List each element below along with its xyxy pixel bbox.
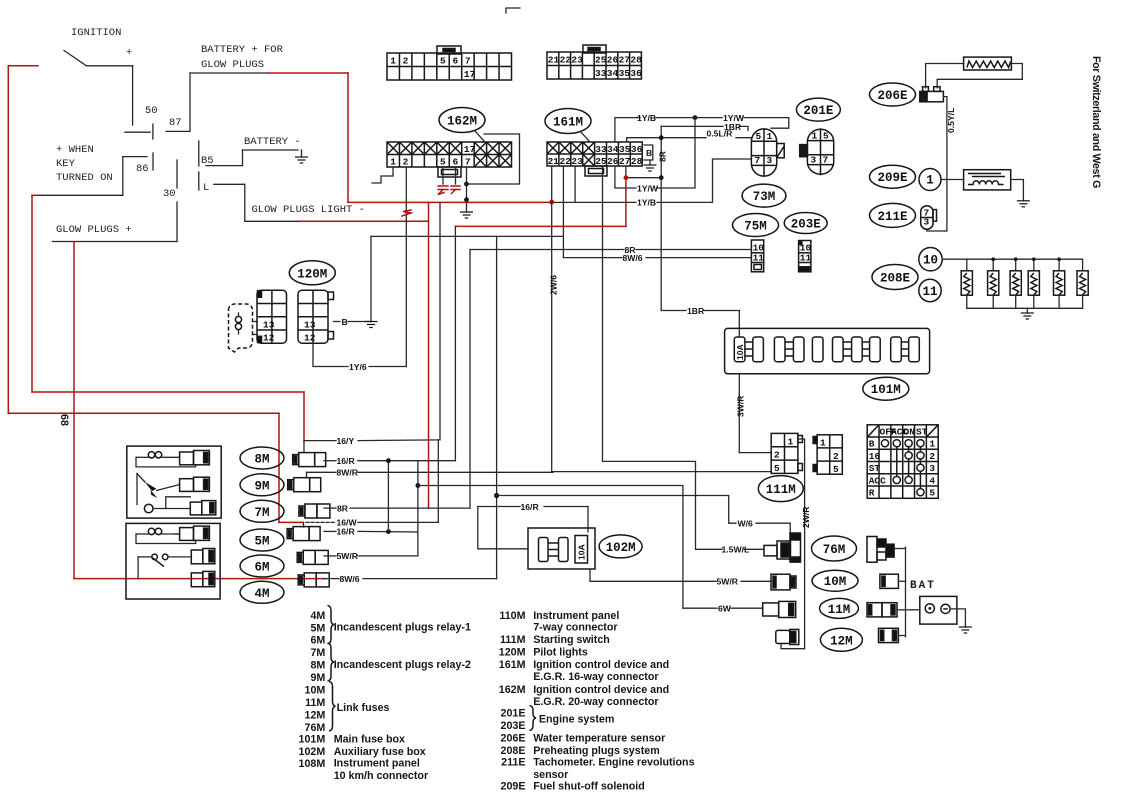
svg-text:BATTERY + FOR: BATTERY + FOR xyxy=(201,44,284,56)
oval 208E xyxy=(872,265,918,290)
svg-text:10A: 10A xyxy=(735,344,745,360)
relay box incandescent plugs relay-2 xyxy=(127,446,221,518)
svg-text:26: 26 xyxy=(607,156,619,167)
terminal 86 xyxy=(123,153,153,175)
svg-text:Tachometer. Engine revolutions: Tachometer. Engine revolutions xyxy=(533,757,694,769)
resistor glow plug 4 xyxy=(1028,259,1039,308)
svg-text:7M: 7M xyxy=(310,647,325,659)
label + WHEN KEY TURNED ON xyxy=(56,144,113,184)
bracket B terminal 161M xyxy=(644,145,653,165)
svg-text:102M: 102M xyxy=(299,746,326,758)
svg-text:1: 1 xyxy=(926,174,934,188)
svg-text:Preheating plugs system: Preheating plugs system xyxy=(533,745,660,757)
svg-text:Incandescent plugs relay-2: Incandescent plugs relay-2 xyxy=(334,659,471,671)
svg-text:33: 33 xyxy=(595,68,607,79)
svg-text:208E: 208E xyxy=(501,745,526,757)
svg-text:1: 1 xyxy=(820,438,826,449)
wire 209E to coil xyxy=(941,179,964,181)
svg-text:211E: 211E xyxy=(501,757,525,769)
svg-text:6M: 6M xyxy=(254,561,269,575)
wire red pin27 drop xyxy=(456,178,626,227)
wire 206E left xyxy=(926,64,964,88)
circle terminal 10 xyxy=(919,248,942,271)
svg-text:3: 3 xyxy=(924,217,930,228)
svg-text:22: 22 xyxy=(560,55,572,66)
svg-text:Water temperature sensor: Water temperature sensor xyxy=(533,733,665,745)
svg-text:25: 25 xyxy=(595,55,607,66)
svg-text:5: 5 xyxy=(440,56,446,67)
ground battery xyxy=(959,627,972,633)
wire 8R from 7M xyxy=(324,507,470,509)
wire 162M pin7 down to ground xyxy=(466,167,468,212)
wire bus 417 vertical xyxy=(417,461,419,556)
junction dots 208E rail xyxy=(991,257,995,261)
connector 12M left xyxy=(776,629,799,644)
svg-text:Starting switch: Starting switch xyxy=(533,634,610,646)
svg-text:L: L xyxy=(203,182,209,194)
svg-text:ST: ST xyxy=(869,463,881,474)
svg-text:1: 1 xyxy=(929,439,935,450)
svg-text:86: 86 xyxy=(136,163,149,175)
wire B from 120M xyxy=(334,321,341,323)
wire pin27 to red node xyxy=(625,166,627,178)
svg-text:1: 1 xyxy=(390,56,396,67)
wire 3W/R from 101M xyxy=(739,374,771,453)
wire to ground 120M xyxy=(348,321,371,323)
oval 73M xyxy=(742,184,786,207)
svg-text:35: 35 xyxy=(619,68,631,79)
svg-text:1: 1 xyxy=(812,131,818,142)
legend left descriptions xyxy=(334,621,471,782)
svg-text:Pilot lights: Pilot lights xyxy=(533,646,588,658)
wire 1BR to 101M xyxy=(661,311,739,337)
wire red 4M feed xyxy=(74,578,326,580)
svg-text:4M: 4M xyxy=(310,610,325,622)
fuse link 9M xyxy=(288,478,321,492)
wire glow plugs plus xyxy=(53,202,178,242)
svg-text:5: 5 xyxy=(823,131,829,142)
svg-text:GLOW PLUGS LIGHT -: GLOW PLUGS LIGHT - xyxy=(252,204,365,216)
wire 162M pin1 stub xyxy=(372,167,393,183)
svg-text:12: 12 xyxy=(263,333,275,344)
svg-text:7: 7 xyxy=(755,155,761,166)
svg-text:76M: 76M xyxy=(305,722,326,734)
svg-text:0.5L/R: 0.5L/R xyxy=(707,129,734,139)
svg-text:7: 7 xyxy=(465,56,471,67)
svg-text:3: 3 xyxy=(929,463,935,474)
svg-text:27: 27 xyxy=(619,156,631,167)
ground bus from 161M pin22 xyxy=(370,236,372,321)
svg-text:12: 12 xyxy=(304,333,316,344)
svg-text:101M: 101M xyxy=(871,383,901,397)
svg-text:KEY: KEY xyxy=(56,158,76,170)
oval 162M xyxy=(439,108,485,142)
svg-text:162M: 162M xyxy=(447,115,477,129)
wire pin21 down xyxy=(551,166,553,202)
svg-text:21: 21 xyxy=(548,55,560,66)
svg-text:2: 2 xyxy=(774,450,780,461)
svg-text:Instrument panel: Instrument panel xyxy=(334,757,420,769)
connector 11M right xyxy=(867,603,897,617)
svg-text:68: 68 xyxy=(58,414,70,426)
wire 16R link vertical xyxy=(387,461,389,532)
wire pin7 loop right xyxy=(467,134,520,184)
svg-text:5: 5 xyxy=(774,463,780,474)
svg-text:1Y/6: 1Y/6 xyxy=(349,362,367,372)
svg-text:2: 2 xyxy=(403,56,409,67)
oval 101M xyxy=(863,377,909,400)
svg-text:8W/R: 8W/R xyxy=(337,468,359,478)
oval 7M xyxy=(240,500,284,522)
wire 1Y/G from 120M pin12 xyxy=(313,343,406,366)
ground battery minus xyxy=(295,157,308,163)
junction dot 8R 0.5L/R xyxy=(659,135,664,140)
wire when-key-turned-on xyxy=(38,157,123,196)
svg-text:8W/6: 8W/6 xyxy=(340,574,360,584)
svg-text:5W/R: 5W/R xyxy=(717,577,739,587)
svg-text:10A: 10A xyxy=(577,544,587,560)
svg-text:3: 3 xyxy=(811,155,817,166)
stray mark top center xyxy=(506,8,520,13)
terminal L xyxy=(199,172,210,194)
wire 162M pin5 stub to glow symbol xyxy=(442,167,444,184)
wire red glow plugs light feed xyxy=(267,73,553,508)
svg-text:7: 7 xyxy=(823,155,829,166)
svg-text:21: 21 xyxy=(548,156,560,167)
wire 1Y/B lower from pin23 to 73M xyxy=(553,159,751,202)
wire vertical 8R net 161M xyxy=(660,126,662,310)
svg-text:5: 5 xyxy=(833,464,839,475)
svg-text:2: 2 xyxy=(403,157,409,168)
svg-text:B: B xyxy=(869,439,875,450)
svg-text:76M: 76M xyxy=(823,543,846,557)
oval 75M xyxy=(733,214,779,237)
wire 1BR top to 73M xyxy=(661,126,748,130)
oval 203E xyxy=(784,213,827,234)
svg-text:108M: 108M xyxy=(299,758,326,770)
svg-text:120M: 120M xyxy=(297,267,327,281)
svg-text:7M: 7M xyxy=(254,506,269,520)
svg-text:201E: 201E xyxy=(501,708,526,720)
svg-text:Fuel shut-off solenoid: Fuel shut-off solenoid xyxy=(533,780,645,792)
svg-text:5: 5 xyxy=(756,131,762,142)
connector 5W/R 10M left xyxy=(771,574,796,590)
svg-text:Main fuse box: Main fuse box xyxy=(334,733,405,745)
connector 201E stadium xyxy=(800,128,834,175)
wire pin25 down to 1.5W/L run xyxy=(603,166,765,549)
wire red glow plugs bus xyxy=(73,242,75,579)
svg-text:9M: 9M xyxy=(310,672,325,684)
wire red key-on branch xyxy=(32,195,38,392)
svg-text:27: 27 xyxy=(619,55,631,66)
svg-text:16/R: 16/R xyxy=(337,456,356,466)
oval 206E xyxy=(870,83,916,106)
wire 1Y/W lower from pin26 xyxy=(615,118,695,188)
fuse link 6M xyxy=(297,550,328,564)
svg-text:16/Y: 16/Y xyxy=(337,436,355,446)
oval 209E xyxy=(870,165,916,188)
wire glow plugs light from L xyxy=(214,184,300,221)
oval 9M xyxy=(240,474,284,496)
connector 120M left block xyxy=(257,290,287,343)
wire 8W/G to 75M xyxy=(563,236,751,257)
svg-text:2: 2 xyxy=(833,451,839,462)
svg-text:9M: 9M xyxy=(254,479,269,493)
svg-text:Link fuses: Link fuses xyxy=(337,702,390,714)
svg-text:206E: 206E xyxy=(877,89,907,103)
svg-text:B: B xyxy=(646,148,652,158)
svg-text:B: B xyxy=(342,317,348,327)
junction dot 16R link xyxy=(386,529,391,534)
junction dot pin7 a xyxy=(464,182,469,187)
svg-text:sensor: sensor xyxy=(533,769,568,781)
svg-text:25: 25 xyxy=(595,156,607,167)
svg-text:209E: 209E xyxy=(501,780,526,792)
svg-text:87: 87 xyxy=(169,117,182,129)
connector 120M right block xyxy=(298,290,334,343)
wire 8M pin to 16Y xyxy=(303,441,305,453)
oval 11M xyxy=(820,598,859,618)
svg-text:50: 50 xyxy=(145,105,158,117)
oval 76M xyxy=(812,536,857,561)
svg-text:36: 36 xyxy=(630,68,642,79)
svg-text:111M: 111M xyxy=(766,483,796,497)
svg-text:+ WHEN: + WHEN xyxy=(56,144,94,156)
fuse link 4M xyxy=(298,573,329,587)
svg-text:1BR: 1BR xyxy=(687,306,705,316)
wire red battery feed left xyxy=(8,65,38,67)
svg-text:102M: 102M xyxy=(606,541,636,555)
legend left braces xyxy=(328,606,336,732)
svg-text:17: 17 xyxy=(464,144,476,155)
svg-text:Auxiliary fuse box: Auxiliary fuse box xyxy=(334,746,426,758)
svg-text:1.5W/L: 1.5W/L xyxy=(722,545,750,555)
svg-text:75M: 75M xyxy=(744,220,767,234)
wire 16/W from 5M xyxy=(304,522,439,527)
svg-text:34: 34 xyxy=(607,68,619,79)
oval 8M xyxy=(240,447,284,469)
legend right ids xyxy=(499,610,526,793)
svg-text:23: 23 xyxy=(571,55,583,66)
svg-text:GLOW PLUGS +: GLOW PLUGS + xyxy=(56,224,132,236)
svg-text:6: 6 xyxy=(452,157,458,168)
fuse box 102M xyxy=(528,528,595,569)
svg-text:5M: 5M xyxy=(254,535,269,549)
svg-text:211E: 211E xyxy=(877,210,907,224)
wire red to 16Y node xyxy=(32,392,304,441)
wire pin22 to ground bus xyxy=(371,166,563,236)
svg-text:33: 33 xyxy=(595,144,607,155)
lamp pilot dashed xyxy=(229,304,258,352)
wire 6W tail to connector xyxy=(731,607,763,609)
svg-text:11: 11 xyxy=(753,253,765,264)
svg-text:1: 1 xyxy=(788,436,794,447)
wire battery plus for glow plugs xyxy=(190,73,267,131)
connector 162M 20-way xyxy=(387,142,512,177)
connector 6W 11M left xyxy=(763,601,796,617)
connector 10M right xyxy=(880,574,899,588)
wire 0.5L/R from pin35 to 73M xyxy=(627,138,752,142)
svg-text:10 km/h connector: 10 km/h connector xyxy=(334,770,428,782)
svg-text:16/R: 16/R xyxy=(337,527,356,537)
svg-text:+: + xyxy=(126,47,132,59)
wire red left bus vertical xyxy=(7,66,9,413)
svg-text:11: 11 xyxy=(800,253,812,264)
svg-text:161M: 161M xyxy=(499,659,526,671)
svg-text:Instrument panel: Instrument panel xyxy=(533,610,619,622)
connector 75M 2-way xyxy=(751,240,764,272)
svg-text:IGNITION: IGNITION xyxy=(71,27,121,39)
svg-text:E.G.R. 20-way connector: E.G.R. 20-way connector xyxy=(533,696,658,708)
resistor glow plug 2 xyxy=(988,259,999,308)
svg-text:35: 35 xyxy=(619,144,631,155)
svg-text:10M: 10M xyxy=(824,575,847,589)
wire battery minus xyxy=(206,150,302,166)
junction dot pin7 b xyxy=(464,197,469,202)
circle terminal 1 xyxy=(919,169,941,191)
junction dot 8R 1Y/W-low xyxy=(659,175,664,180)
fuse link 5M xyxy=(287,527,320,541)
svg-text:1: 1 xyxy=(390,157,396,168)
resistor glow plug 3 xyxy=(1010,259,1021,308)
svg-text:Incandescent plugs relay-1: Incandescent plugs relay-1 xyxy=(334,621,471,633)
oval 5M xyxy=(240,529,284,551)
svg-text:3W/R: 3W/R xyxy=(736,395,746,417)
connector 111M A xyxy=(771,433,802,474)
resistor glow plug 1 xyxy=(961,259,972,308)
svg-text:Ignition control device and: Ignition control device and xyxy=(533,684,669,696)
oval 10M xyxy=(812,570,858,591)
svg-text:73M: 73M xyxy=(753,190,776,204)
coil box 209E xyxy=(964,170,1011,190)
svg-text:2: 2 xyxy=(929,451,935,462)
wire 2W/R from 111M pin1 xyxy=(781,439,805,649)
oval 6M xyxy=(240,555,284,577)
svg-text:110M: 110M xyxy=(499,610,525,622)
svg-text:For Switzerland and West G: For Switzerland and West G xyxy=(1090,56,1102,188)
oval 161M xyxy=(545,109,591,142)
junction dot bus417 xyxy=(416,483,421,488)
svg-text:2W/6: 2W/6 xyxy=(549,275,559,295)
battery 12V xyxy=(920,596,957,624)
oval 4M xyxy=(240,581,284,603)
svg-text:W/6: W/6 xyxy=(738,519,753,529)
switch S ignition contact xyxy=(64,51,133,126)
terminal 50 xyxy=(125,105,158,139)
svg-text:26: 26 xyxy=(607,55,619,66)
relay box incandescent plugs relay-1 xyxy=(126,523,220,599)
svg-text:ON: ON xyxy=(904,426,916,437)
fuse link 7M xyxy=(299,504,330,518)
resistor glow plug 5 xyxy=(1054,259,1065,308)
ground 209E xyxy=(1017,201,1030,207)
circle terminal 11 xyxy=(919,279,941,301)
wire 211E output xyxy=(927,230,945,231)
terminal 30 xyxy=(163,160,177,200)
wire 16/Y horizontal xyxy=(304,439,440,442)
connector 211E xyxy=(921,206,937,229)
wire 8W/G from 4M xyxy=(324,496,497,579)
connector 161M 16-way xyxy=(547,142,643,176)
svg-text:1Y/B: 1Y/B xyxy=(637,113,656,123)
svg-text:111M: 111M xyxy=(500,634,526,646)
svg-text:10: 10 xyxy=(923,254,938,268)
ground 162M pin7 xyxy=(460,212,473,218)
svg-text:Engine system: Engine system xyxy=(539,713,614,725)
svg-text:5M: 5M xyxy=(310,622,325,634)
svg-text:5: 5 xyxy=(929,488,935,499)
wire 208E bottom rail xyxy=(967,307,1083,309)
svg-text:ST: ST xyxy=(916,426,928,437)
junction dot bus497 xyxy=(494,493,499,498)
connector 111M B xyxy=(813,435,842,475)
splice red on pin2 wire xyxy=(402,210,411,216)
svg-text:7: 7 xyxy=(465,157,471,168)
svg-text:10M: 10M xyxy=(305,685,326,697)
svg-text:22: 22 xyxy=(560,156,572,167)
wire W/G path xyxy=(497,496,791,537)
svg-text:4M: 4M xyxy=(254,587,269,601)
resistor heater 206E xyxy=(964,57,1012,70)
svg-text:1: 1 xyxy=(767,131,773,142)
svg-text:11M: 11M xyxy=(305,697,325,709)
svg-text:203E: 203E xyxy=(791,218,821,232)
svg-text:162M: 162M xyxy=(499,684,526,696)
ground 120M xyxy=(365,322,378,328)
oval 201E xyxy=(796,98,840,121)
wire 8R long to 75M xyxy=(470,250,751,509)
svg-text:36: 36 xyxy=(631,144,643,155)
ground 161M B xyxy=(644,165,657,171)
svg-text:R: R xyxy=(869,488,875,499)
svg-text:4: 4 xyxy=(929,475,935,486)
wire riser 16R to red node xyxy=(454,226,456,460)
terminal B5 xyxy=(199,141,214,167)
svg-text:13: 13 xyxy=(263,320,275,331)
wire BAT bus xyxy=(894,547,905,637)
fuse link 8M xyxy=(293,453,326,467)
svg-text:8R: 8R xyxy=(658,150,668,162)
svg-text:BATTERY -: BATTERY - xyxy=(244,136,301,148)
svg-text:30: 30 xyxy=(163,188,176,200)
wire 16/R into 102M xyxy=(478,507,588,549)
svg-text:GLOW PLUGS: GLOW PLUGS xyxy=(201,59,264,71)
svg-text:8M: 8M xyxy=(254,453,269,467)
connector 12M right xyxy=(879,628,899,642)
oval 12M xyxy=(820,628,862,651)
svg-text:16: 16 xyxy=(869,451,881,462)
svg-text:E.G.R. 16-way connector: E.G.R. 16-way connector xyxy=(533,671,658,683)
svg-text:11M: 11M xyxy=(828,603,851,617)
wire 209E coil to ground xyxy=(1011,180,1024,201)
svg-text:TURNED ON: TURNED ON xyxy=(56,172,113,184)
svg-text:8M: 8M xyxy=(310,660,325,672)
svg-text:12M: 12M xyxy=(830,634,853,648)
svg-text:23: 23 xyxy=(571,156,583,167)
svg-text:120M: 120M xyxy=(499,646,526,658)
svg-text:ACC: ACC xyxy=(869,475,886,486)
wire 0.5Y/L vertical xyxy=(943,97,947,231)
legend right brace 201E 203E xyxy=(530,706,537,731)
svg-text:6W: 6W xyxy=(718,603,732,613)
wire 208E top rail xyxy=(942,258,1082,260)
connector 73M stadium xyxy=(751,129,784,177)
svg-text:6: 6 xyxy=(452,56,458,67)
ground 208E xyxy=(1026,308,1028,313)
svg-text:206E: 206E xyxy=(501,733,526,745)
wire battery to bus xyxy=(906,609,920,611)
svg-text:BAT: BAT xyxy=(910,580,936,592)
